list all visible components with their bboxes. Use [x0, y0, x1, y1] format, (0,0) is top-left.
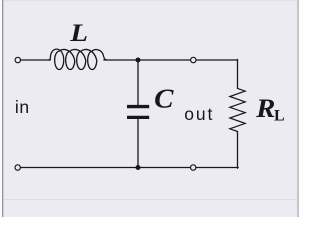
svg-text:R: R — [255, 93, 275, 123]
terminal in bottom — [15, 165, 20, 170]
bottom rule — [3, 199, 297, 200]
wire inductor to mid terminal — [104, 59, 191, 61]
node dot top junction — [136, 58, 141, 63]
svg-text:L: L — [69, 20, 88, 47]
frame right edge — [297, 0, 298, 217]
svg-text:in: in — [15, 97, 30, 117]
wire right vertical top lead — [237, 59, 239, 88]
wire junction to capacitor — [137, 60, 139, 105]
svg-text:out: out — [184, 104, 214, 124]
wire right vertical bottom lead — [237, 132, 239, 169]
frame top edge — [3, 0, 297, 2]
wire bottom right segment — [196, 167, 238, 169]
terminal out top — [191, 57, 196, 62]
inductor L coil — [49, 49, 108, 69]
wire capacitor to bottom junction — [137, 119, 139, 168]
resistor RL zigzag — [230, 88, 245, 131]
wire top-left — [20, 59, 50, 61]
capacitor C plates — [127, 107, 149, 118]
svg-text:L: L — [274, 108, 285, 125]
svg-text:C: C — [154, 82, 174, 113]
terminal in top — [15, 57, 20, 62]
node dot bottom junction — [136, 165, 141, 170]
wire mid terminal to right corner — [196, 59, 238, 61]
frame left edge — [0, 0, 2, 217]
wire bottom left segment — [20, 167, 190, 169]
terminal out bottom — [191, 165, 196, 170]
